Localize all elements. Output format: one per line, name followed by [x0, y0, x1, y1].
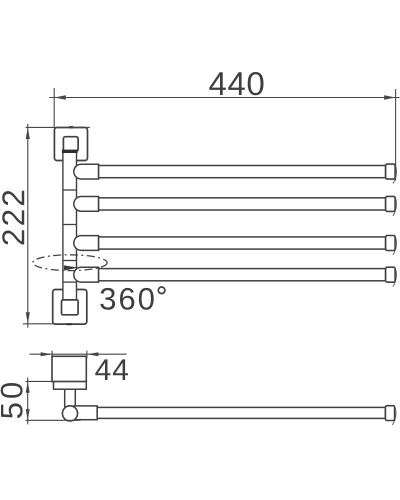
dimension 50 line	[26, 378, 30, 425]
label 360 deg	[100, 287, 165, 310]
dimension text 440	[209, 72, 263, 95]
dimension text 222	[2, 191, 24, 245]
bottom plate screw tick	[66, 323, 72, 325]
arm 3 end cap	[386, 236, 397, 255]
wall post	[63, 153, 77, 301]
top collar	[62, 150, 78, 153]
post joint 3	[63, 260, 77, 262]
dimension text 44	[95, 359, 128, 380]
arm 4 tube	[99, 269, 386, 281]
side view arm boss	[74, 406, 97, 420]
arm 1 end cap	[386, 164, 397, 183]
post joint 2	[63, 224, 77, 226]
dimension 440 extension right	[395, 89, 397, 181]
top plate screw tick	[69, 126, 73, 128]
side view wall plate	[52, 356, 86, 381]
dimension 50 extension bottom	[26, 419, 81, 421]
top mounting plate	[54, 128, 87, 161]
post joint 4	[63, 281, 77, 283]
arm 2 end cap	[386, 196, 397, 215]
bottom plate inner square	[62, 300, 79, 315]
side view plate base slab	[54, 382, 87, 390]
rotation arrowhead	[64, 265, 78, 270]
post joint 1	[63, 189, 77, 191]
dimension 50 extension top	[26, 380, 86, 382]
arm 1 tube	[99, 166, 386, 178]
dimension 222 extension top	[26, 126, 90, 128]
arm 2 tube	[99, 198, 386, 210]
dimension 440 line	[49, 95, 399, 99]
dimension 44 extension right	[86, 351, 88, 359]
arm 3 tube	[99, 237, 386, 249]
side view arm tube	[97, 407, 385, 418]
dimension 222 line	[26, 124, 30, 328]
arm 2 boss	[74, 197, 99, 212]
bottom mounting plate	[53, 290, 87, 325]
arm 4 boss	[74, 267, 99, 282]
side view end cap	[385, 406, 396, 425]
arm 1 boss	[74, 164, 99, 179]
dimension 222 extension bottom	[23, 323, 53, 325]
arm 4 end cap	[386, 267, 397, 286]
dimension 44 line	[30, 352, 127, 356]
top plate inner square	[63, 137, 78, 152]
side view pivot stub	[65, 389, 76, 407]
arm 3 boss	[74, 236, 99, 251]
dimension text 50	[1, 383, 23, 418]
dimension 44 extension left	[51, 351, 53, 359]
dimension 440 extension left	[53, 88, 55, 128]
side view pivot circle	[62, 406, 77, 421]
rotation ellipse 360	[33, 255, 107, 271]
